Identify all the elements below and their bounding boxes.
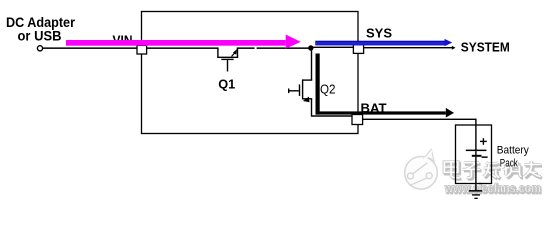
wire: Q1 to junction bbox=[237, 47, 255, 49]
svg-text:Q2: Q2 bbox=[320, 82, 336, 97]
battery cell: short negative plate bbox=[472, 155, 482, 157]
junction node (SYS node) bbox=[308, 45, 313, 50]
ground symbol bbox=[469, 190, 482, 199]
input terminal circle bbox=[37, 46, 42, 51]
svg-text:SYSTEM: SYSTEM bbox=[461, 40, 510, 55]
pin square SYS (right edge of IC box) bbox=[353, 45, 363, 54]
pin square BAT (right edge of IC box) bbox=[352, 115, 363, 125]
battery + sign bbox=[480, 138, 487, 145]
wire: battery negative to ground bbox=[475, 157, 476, 191]
SYS power-flow arrow (blue) bbox=[315, 39, 452, 46]
svg-text:Battery: Battery bbox=[497, 145, 529, 157]
svg-text:Q1: Q1 bbox=[218, 76, 235, 91]
transistor Q2 (PMOS between SYS node and BAT) bbox=[289, 48, 353, 117]
Q1 arrow bbox=[233, 49, 237, 55]
pin square VIN (left edge of IC box) bbox=[137, 45, 147, 54]
wire: SYS pin to SYSTEM arrow bbox=[364, 47, 454, 48]
svg-text:or USB: or USB bbox=[18, 29, 62, 44]
Q2 arrow bbox=[303, 97, 310, 103]
VIN power-flow arrow (magenta) bbox=[66, 35, 301, 49]
svg-text:BAT: BAT bbox=[361, 101, 387, 116]
wire: BAT pin to battery bbox=[363, 119, 477, 120]
svg-text:SYS: SYS bbox=[366, 26, 392, 41]
wire: junction to SYS pin bbox=[310, 47, 355, 48]
arrowhead to SYSTEM bbox=[452, 46, 456, 50]
wire: input to Q1 bbox=[43, 47, 219, 49]
svg-text:Pack: Pack bbox=[500, 157, 518, 169]
wire: down into battery pack bbox=[475, 119, 476, 150]
battery pack box bbox=[456, 125, 492, 184]
battery cell: long positive plate bbox=[466, 150, 487, 152]
transistor Q1 (PMOS in series with VIN rail) bbox=[217, 48, 238, 72]
IC box bbox=[142, 12, 359, 134]
battery cell: connector stub bbox=[475, 151, 476, 155]
battery - sign bbox=[482, 156, 488, 158]
BAT charge-path (thick black) bbox=[316, 54, 455, 118]
watermark logo circle bbox=[405, 149, 438, 189]
